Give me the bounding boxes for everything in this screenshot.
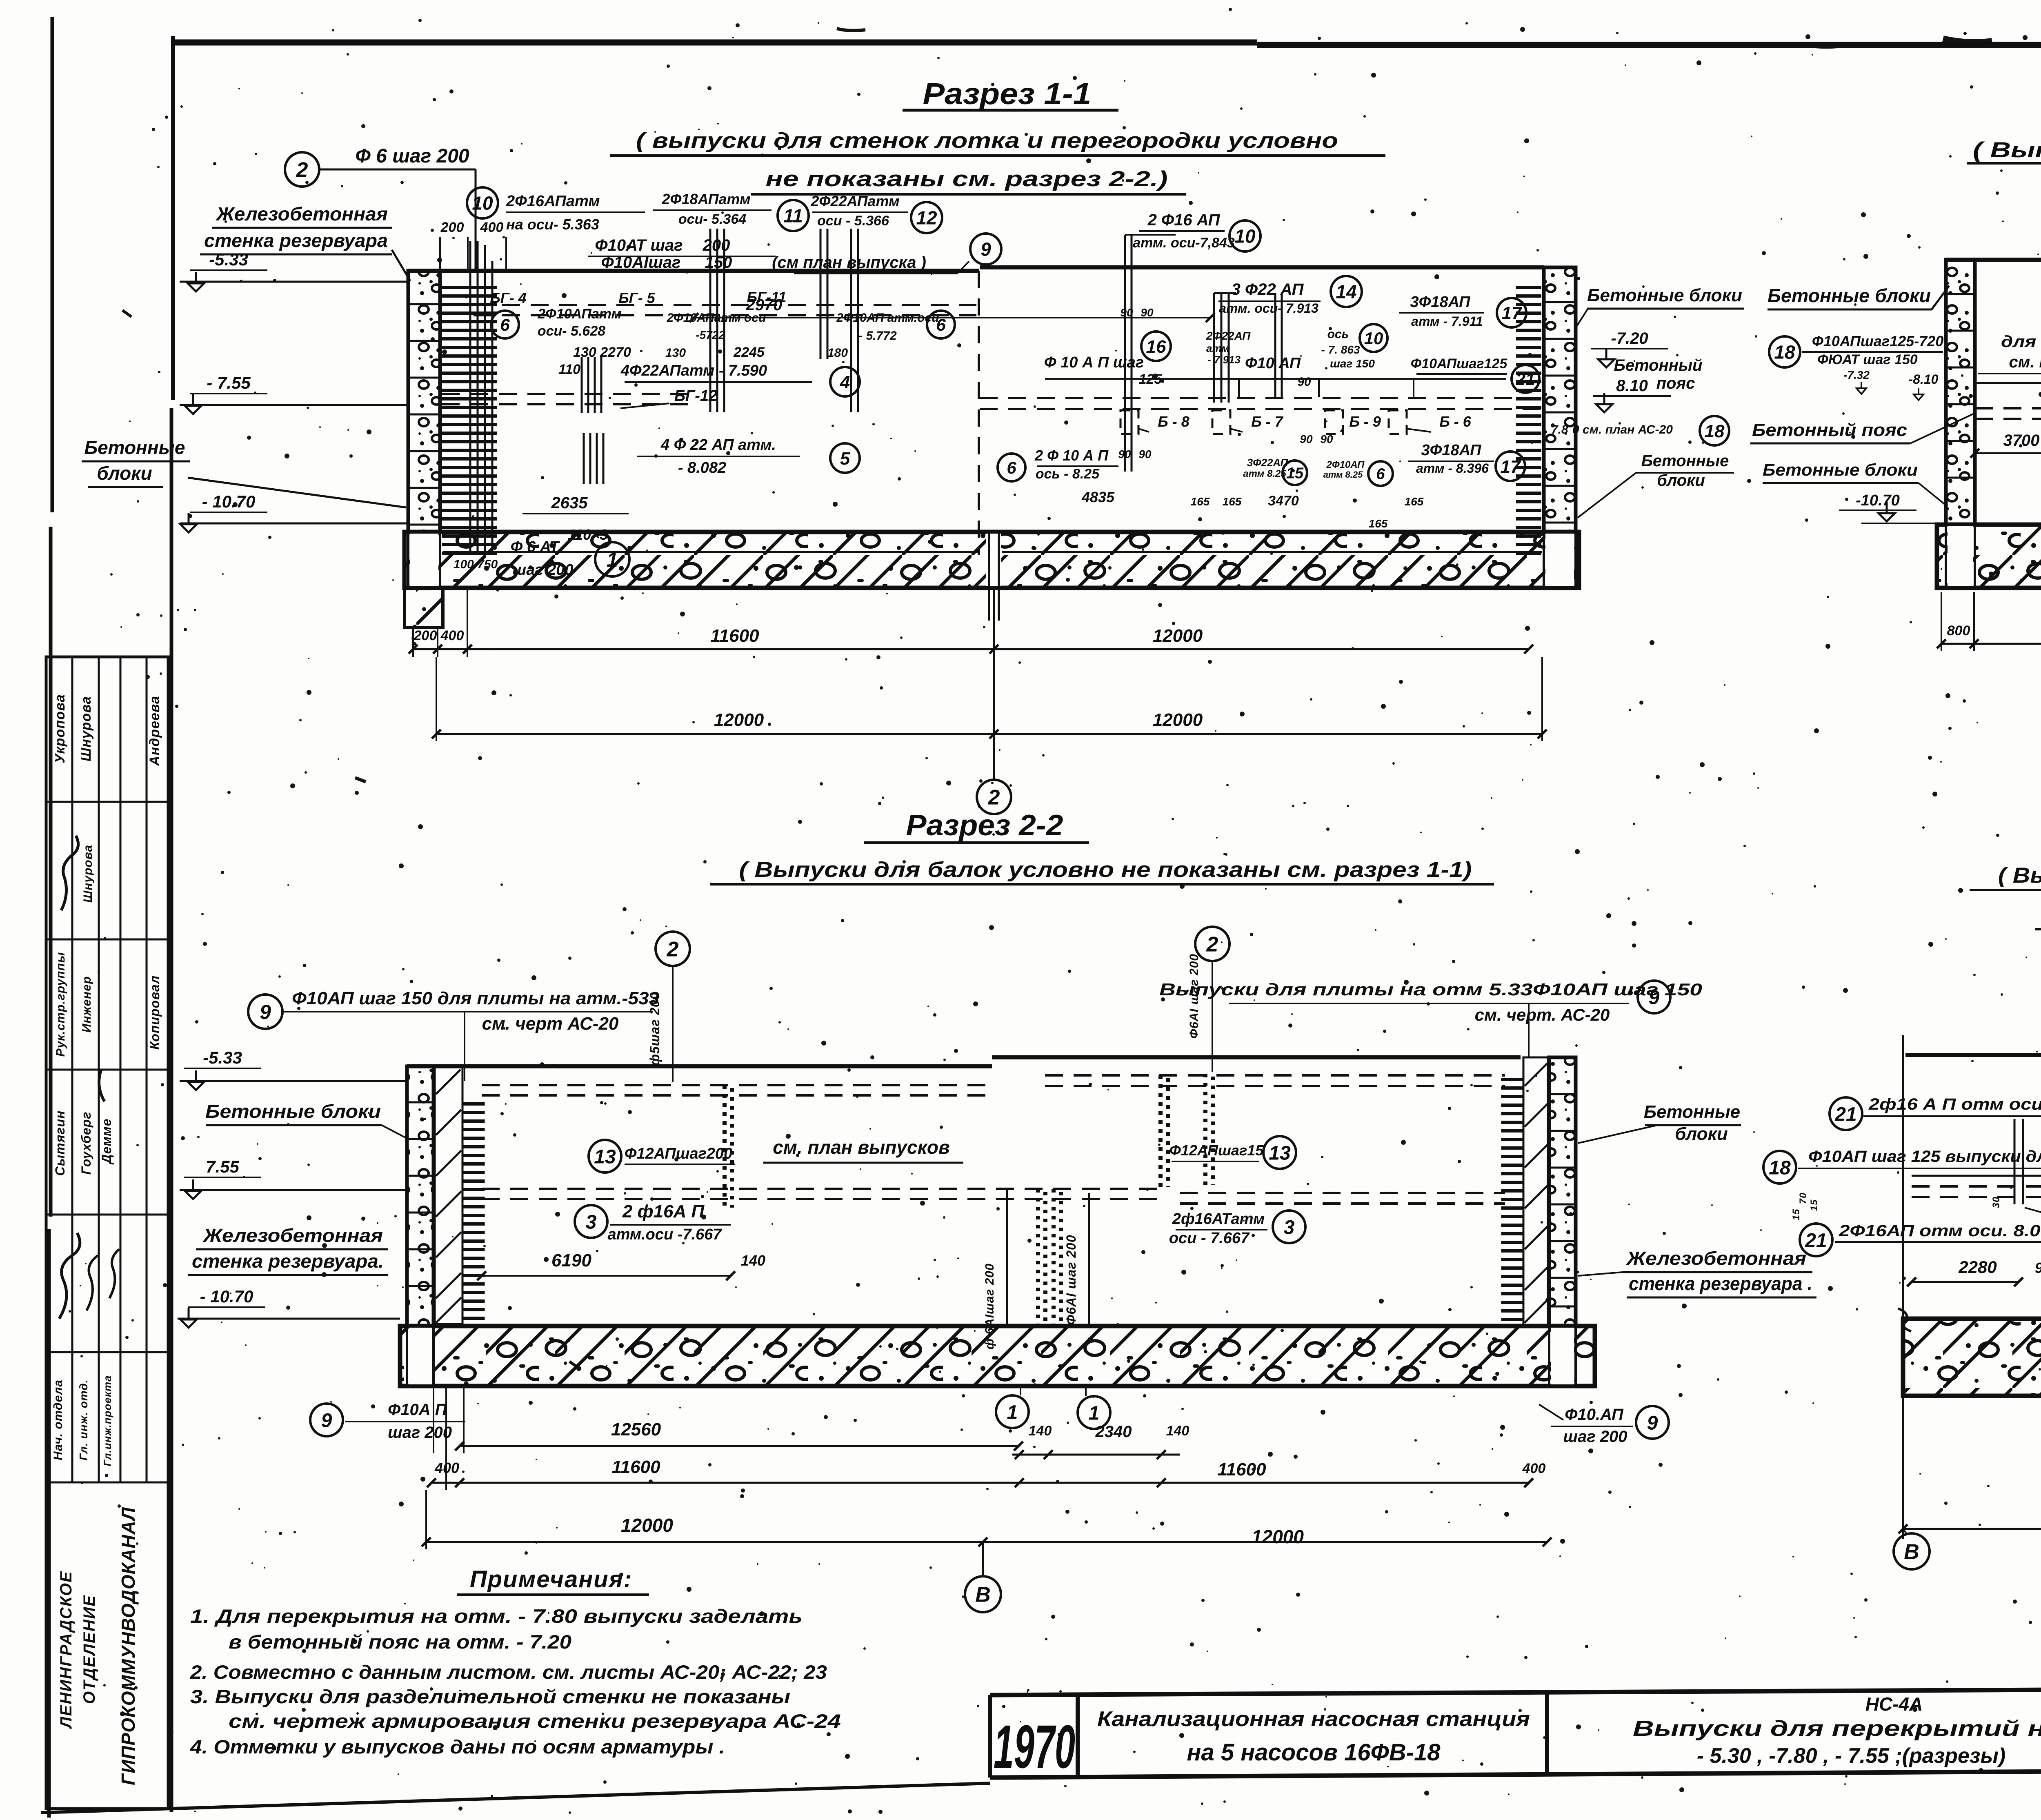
frame bottom border — [41, 1783, 990, 1813]
svg-text:-5.33: -5.33 — [209, 250, 248, 269]
cluster 4F22 mid — [581, 357, 583, 413]
svg-text:Ф10АП шаг 125 выпуски для п: Ф10АП шаг 125 выпуски для плиты на отм.-… — [1808, 1148, 2041, 1166]
svg-text:Ф10АПшаг125: Ф10АПшаг125 — [1411, 356, 1508, 372]
svg-text:18: 18 — [1705, 421, 1725, 441]
3 right — [1273, 1210, 1305, 1243]
center axis gap in band — [986, 534, 1001, 586]
beams dashed B8 B7 B9 B6 — [980, 397, 1543, 399]
svg-text:2280: 2280 — [1958, 1257, 1997, 1277]
svg-text:оси - 5.366: оси - 5.366 — [817, 213, 889, 229]
svg-text:2970: 2970 — [746, 296, 783, 314]
svg-text:Ф12АПшаг15: Ф12АПшаг15 — [1169, 1142, 1264, 1159]
svg-text:-7.32: -7.32 — [1843, 369, 1870, 381]
svg-text:БГ- 4: БГ- 4 — [490, 289, 527, 306]
svg-text:Ф10АПшаг125-720: Ф10АПшаг125-720 — [1812, 333, 1944, 349]
lower dashed slab — [482, 1188, 1158, 1190]
svg-text:Б - 9: Б - 9 — [1349, 413, 1381, 430]
svg-text:- 5.772: - 5.772 — [858, 329, 897, 343]
svg-text:6: 6 — [1376, 466, 1385, 483]
svg-text:-10.70: -10.70 — [1856, 492, 1900, 509]
svg-text:140: 140 — [1029, 1423, 1052, 1439]
structure 4-4 — [1902, 1035, 1904, 1539]
title block — [990, 1687, 2041, 1695]
svg-text:ГИПРОКОММУНВОДОКАНАЛ: ГИПРОКОММУНВОДОКАНАЛ — [118, 1507, 139, 1785]
svg-text:4835: 4835 — [1081, 489, 1115, 505]
svg-text:Укропова: Укропова — [52, 694, 68, 763]
svg-text:Шнурова: Шнурова — [81, 845, 95, 903]
svg-text:-7.20: -7.20 — [1611, 329, 1648, 347]
svg-text:Ф 10 А П шаг: Ф 10 А П шаг — [1044, 354, 1144, 371]
svg-text:Гл. инж. отд.: Гл. инж. отд. — [77, 1379, 90, 1460]
svg-text:2Ф16АПатм: 2Ф16АПатм — [506, 193, 600, 210]
svg-text:7.55: 7.55 — [206, 1157, 239, 1176]
svg-text:12000: 12000 — [1153, 626, 1203, 646]
svg-text:3: 3 — [586, 1211, 597, 1233]
svg-text:3. Выпуски для разделител: 3. Выпуски для разделительной стенки не … — [190, 1686, 790, 1707]
svg-text:7.8: 7.8 — [1551, 423, 1568, 436]
svg-text:18: 18 — [1774, 342, 1795, 363]
svg-text:6190: 6190 — [551, 1250, 591, 1270]
svg-text:2635: 2635 — [551, 494, 588, 512]
svg-text:130: 130 — [665, 346, 686, 360]
svg-text:150: 150 — [705, 254, 732, 271]
svg-text:5: 5 — [840, 449, 850, 469]
svg-text:6: 6 — [500, 315, 510, 334]
svg-text:9: 9 — [1647, 1412, 1658, 1434]
svg-text:3700: 3700 — [2003, 432, 2040, 449]
svg-text:12000: 12000 — [621, 1515, 673, 1536]
svg-text:-8.10: -8.10 — [1909, 372, 1939, 387]
svg-text:1: 1 — [1089, 1402, 1100, 1424]
svg-text:14: 14 — [1336, 281, 1356, 303]
frame left vertical — [171, 36, 175, 400]
axis circle 2 right chamber — [1195, 927, 1229, 961]
right wall 2-2 — [1501, 1078, 1524, 1323]
svg-text:1970: 1970 — [994, 1712, 1075, 1781]
svg-text:6: 6 — [1007, 458, 1016, 477]
svg-text:2: 2 — [988, 786, 1000, 810]
svg-text:ФЮАТ шаг 150: ФЮАТ шаг 150 — [1817, 352, 1918, 367]
svg-text:12000: 12000 — [714, 710, 764, 730]
svg-text:3Ф22АП: 3Ф22АП — [1247, 456, 1289, 469]
svg-text:10: 10 — [472, 193, 493, 214]
svg-text:165: 165 — [1223, 495, 1242, 508]
foundation band 1-1 — [405, 532, 1579, 588]
9 circle bottom — [310, 1404, 343, 1436]
svg-text:15: 15 — [1809, 1199, 1820, 1211]
svg-text:- 10.70: - 10.70 — [200, 1287, 253, 1306]
level -5.33 — [188, 272, 204, 291]
level -10.70 — [180, 513, 197, 532]
svg-text:Ф10АТ шаг: Ф10АТ шаг — [595, 236, 683, 254]
svg-text:Разрез 1-1: Разрез 1-1 — [923, 77, 1092, 111]
svg-text:2Ф16АП отм оси. 8.00: 2Ф16АП отм оси. 8.00 — [1839, 1222, 2041, 1240]
svg-text:блоки: блоки — [97, 463, 152, 484]
svg-text:21: 21 — [1834, 1104, 1856, 1125]
svg-text:Ф10А П: Ф10А П — [388, 1401, 447, 1419]
svg-text:Железобетонная: Железобетонная — [216, 203, 388, 225]
svg-text:2. Совместно с данным листо: 2. Совместно с данным листом. см. листы … — [190, 1661, 827, 1683]
svg-text:9: 9 — [1649, 987, 1660, 1008]
svg-text:4 Ф 22 АП атм.: 4 Ф 22 АП атм. — [660, 436, 776, 454]
svg-text:165: 165 — [1369, 517, 1388, 530]
svg-text:на оси- 5.363: на оси- 5.363 — [506, 216, 599, 233]
top slab 2-2 — [407, 1064, 992, 1068]
svg-text:15: 15 — [1286, 465, 1304, 482]
svg-text:Ф12АПшаг200: Ф12АПшаг200 — [625, 1145, 732, 1162]
svg-text:- 7. 863: - 7. 863 — [1321, 343, 1360, 356]
left wall 2-2 — [407, 1066, 434, 1326]
svg-text:Канализационная насосная с: Канализационная насосная станция — [1097, 1707, 1530, 1731]
svg-text:Бетонные блоки: Бетонные блоки — [1587, 285, 1742, 305]
svg-text:2: 2 — [1206, 933, 1218, 957]
svg-text:2ф16 А П отм оси-7.863: 2ф16 А П отм оси-7.863 — [1868, 1095, 2041, 1113]
svg-text:Железобетонная: Железобетонная — [202, 1225, 383, 1246]
svg-text:-5722: -5722 — [696, 329, 725, 341]
dashed vertical chamber edge — [978, 271, 980, 555]
svg-text:( Выпуски для балок Б-6 , Б: ( Выпуски для балок Б-6 , Б-9 условно не — [1973, 138, 2041, 162]
label 9 left — [248, 995, 282, 1029]
band 3-3 — [1937, 525, 2041, 588]
svg-text:НС-4А: НС-4А — [1865, 1693, 1923, 1715]
svg-text:Бетонный: Бетонный — [1614, 356, 1703, 374]
svg-text:Ф10АП шаг 150 для плиты на: Ф10АП шаг 150 для плиты на атм.-533 — [292, 988, 659, 1008]
right wall 1-1 — [1516, 286, 1541, 555]
svg-text:Бетонные: Бетонные — [1641, 452, 1729, 470]
svg-text:шаг 200: шаг 200 — [1563, 1428, 1627, 1446]
svg-text:Б - 7: Б - 7 — [1251, 413, 1283, 430]
lower annotations right chamber — [998, 454, 1025, 481]
svg-text:Ф10.АП: Ф10.АП — [1565, 1406, 1624, 1424]
svg-text:Ф 6 АТ: Ф 6 АТ — [511, 538, 560, 556]
levels left — [188, 1070, 204, 1090]
svg-text:В: В — [975, 1583, 991, 1607]
svg-text:шаг 200: шаг 200 — [388, 1424, 452, 1442]
svg-text:оси- 5.628: оси- 5.628 — [538, 323, 605, 339]
dimension rows 1-1 — [413, 648, 1529, 650]
svg-text:1. Для перекрытия на отм. -: 1. Для перекрытия на отм. - 7.80 выпуски… — [190, 1605, 803, 1627]
svg-text:90: 90 — [2035, 1259, 2041, 1276]
svg-text:2: 2 — [667, 938, 679, 961]
axis circle 2 — [656, 932, 690, 966]
dotted rebar columns — [723, 1085, 727, 1208]
svg-text:2: 2 — [296, 158, 308, 182]
svg-text:- 10.70: - 10.70 — [202, 492, 256, 511]
svg-text:3Ф18АП: 3Ф18АП — [1410, 294, 1471, 311]
svg-text:90: 90 — [1138, 448, 1152, 461]
svg-text:9: 9 — [980, 239, 991, 260]
svg-text:шаг 200: шаг 200 — [512, 561, 573, 578]
svg-text:- 8.082: - 8.082 — [678, 459, 726, 476]
svg-text:400: 400 — [434, 1460, 459, 1476]
svg-text:в бетонный пояс на отм. -: в бетонный пояс на отм. - 7.20 — [229, 1631, 571, 1653]
svg-text:2340: 2340 — [1095, 1423, 1132, 1441]
svg-text:2Ф10АПатм: 2Ф10АПатм — [537, 306, 621, 322]
svg-text:90: 90 — [1300, 433, 1313, 445]
svg-text:стенка резервуара: стенка резервуара — [204, 230, 388, 251]
svg-text:90: 90 — [1297, 375, 1311, 389]
svg-text:9: 9 — [321, 1410, 332, 1431]
svg-text:4: 4 — [840, 372, 850, 392]
wall through band — [410, 534, 438, 586]
svg-text:12000: 12000 — [1153, 710, 1203, 730]
labels 13 and 3 left chamber — [589, 1140, 621, 1173]
svg-text:Ф 6 шаг 200: Ф 6 шаг 200 — [355, 145, 469, 167]
svg-text:оси- 5.364: оси- 5.364 — [678, 211, 746, 227]
svg-text:11: 11 — [783, 205, 803, 227]
svg-text:10: 10 — [1234, 226, 1256, 247]
svg-text:30: 30 — [1991, 1197, 2002, 1208]
svg-text:12000: 12000 — [1252, 1526, 1304, 1547]
svg-text:21: 21 — [1805, 1230, 1827, 1251]
svg-text:-5.33: -5.33 — [203, 1048, 242, 1067]
svg-text:140: 140 — [741, 1252, 765, 1269]
svg-text:( Выпуски для балок Б6 и: ( Выпуски для балок Б6 и Б-8 условно — [1998, 863, 2041, 888]
beams B5 B2 — [2014, 1119, 2016, 1204]
svg-text:Шнурова: Шнурова — [78, 696, 94, 761]
svg-text:Сытягин: Сытягин — [53, 1110, 67, 1176]
svg-text:БГ- 5: БГ- 5 — [618, 289, 656, 306]
svg-text:- 7.55: - 7.55 — [207, 373, 251, 392]
axis circle 2 with F6 leader — [285, 152, 319, 187]
structure 3-3 — [1946, 258, 2041, 262]
svg-text:165: 165 — [1191, 495, 1210, 508]
signature table frame — [46, 657, 168, 1809]
rebar clusters hanging — [709, 229, 711, 412]
svg-text:13: 13 — [594, 1146, 616, 1168]
svg-text:90: 90 — [1118, 448, 1131, 461]
wall vertical rebars — [469, 241, 471, 555]
svg-text:110: 110 — [558, 362, 580, 377]
svg-text:Инженер: Инженер — [80, 976, 93, 1033]
svg-text:165: 165 — [1405, 495, 1424, 508]
svg-text:Выпуски для плиты на отм 5.33Ф: Выпуски для плиты на отм 5.33Ф10АП шаг 1… — [1159, 980, 1702, 999]
18 circle left — [1769, 336, 1800, 367]
svg-text:пояс: пояс — [1656, 374, 1695, 392]
svg-text:70: 70 — [1798, 1193, 1809, 1204]
svg-text:100 750: 100 750 — [454, 558, 498, 571]
svg-text:ф5шаг 200: ф5шаг 200 — [647, 992, 662, 1066]
svg-text:атм - 7.911: атм - 7.911 — [1411, 314, 1483, 329]
svg-text:Бетонные блоки: Бетонные блоки — [1768, 285, 1931, 306]
svg-text:2245: 2245 — [733, 345, 765, 360]
svg-text:1: 1 — [1007, 1402, 1018, 1423]
svg-text:Бетонные блоки: Бетонные блоки — [1763, 460, 1918, 479]
21/19/20/18 labels — [1830, 1097, 1862, 1130]
svg-text:для плиты на атм-7.83: для плиты на атм-7.83 — [2001, 333, 2041, 351]
svg-text:Копировал: Копировал — [147, 975, 162, 1050]
svg-text:16: 16 — [1146, 337, 1166, 357]
svg-text:Б - 8: Б - 8 — [1158, 413, 1189, 430]
svg-text:200: 200 — [440, 220, 464, 235]
svg-text:стенка резервуара .: стенка резервуара . — [1629, 1273, 1812, 1294]
svg-text:200: 200 — [703, 236, 730, 254]
svg-text:Ф6АI шаг 200: Ф6АI шаг 200 — [1064, 1235, 1078, 1325]
svg-text:см. план выпусков: см. план выпусков — [773, 1137, 950, 1158]
annotation cluster top (10,11,12) — [467, 187, 498, 218]
svg-text:Бетонный пояс: Бетонный пояс — [1752, 420, 1907, 440]
svg-text:Примечания:: Примечания: — [470, 1566, 632, 1593]
svg-text:Железобетонная: Железобетонная — [1626, 1248, 1806, 1269]
svg-text:атм. оси-7,843: атм. оси-7,843 — [1133, 235, 1235, 251]
center pit — [1006, 1189, 1008, 1326]
svg-text:атм: атм — [1206, 342, 1229, 354]
svg-text:см. черт АС-20: см. черт АС-20 — [482, 1014, 619, 1034]
svg-text:атм. оси- 7.913: атм. оси- 7.913 — [1219, 301, 1318, 316]
frame top border — [173, 40, 1257, 46]
svg-text:2Ф22АП: 2Ф22АП — [1206, 329, 1251, 342]
svg-text:ось: ось — [1327, 327, 1349, 341]
svg-text:Б - 6: Б - 6 — [1439, 413, 1471, 430]
top slab line and dashes — [408, 269, 979, 273]
svg-text:18: 18 — [1769, 1157, 1791, 1179]
scan streaks — [99, 16, 2041, 1367]
svg-text:3 Ф22 АП: 3 Ф22 АП — [1232, 280, 1304, 298]
svg-text:см. чертеж армирования: см. чертеж армирования стенки резервуара… — [229, 1710, 841, 1732]
svg-text:ОТДЕЛЕНИЕ: ОТДЕЛЕНИЕ — [80, 1595, 98, 1704]
svg-text:2Ф10АП: 2Ф10АП — [1326, 459, 1365, 470]
band 4-4 — [1903, 1319, 2041, 1396]
svg-text:800: 800 — [1947, 623, 1970, 639]
svg-text:ось - 8.25: ось - 8.25 — [1036, 466, 1100, 482]
svg-text:2 Ф 10 А П: 2 Ф 10 А П — [1034, 447, 1109, 464]
svg-text:Андреева: Андреева — [147, 696, 162, 766]
svg-text:атм - 8.396: атм - 8.396 — [1416, 461, 1489, 476]
svg-text:3Ф18АП: 3Ф18АП — [1421, 442, 1482, 459]
13 right — [1263, 1136, 1296, 1169]
band 2-2 — [400, 1326, 1595, 1386]
svg-text:Бетонные: Бетонные — [1644, 1102, 1740, 1122]
svg-text:2 ф16А П: 2 ф16А П — [622, 1201, 705, 1221]
svg-text:блоки: блоки — [1675, 1124, 1728, 1144]
rebar comb right of wall — [442, 286, 497, 555]
svg-text:БГ-12: БГ-12 — [674, 387, 717, 405]
svg-text:Нач. отдела: Нач. отдела — [51, 1379, 65, 1460]
svg-text:12: 12 — [916, 207, 937, 229]
slab lines 4-4 — [1912, 1175, 2041, 1177]
svg-text:Разрез 2-2: Разрез 2-2 — [906, 809, 1063, 842]
inner floor lines 1-1 — [443, 551, 978, 553]
21/19 lower — [1800, 1224, 1832, 1256]
svg-text:Рук.стр.группы: Рук.стр.группы — [54, 952, 67, 1057]
svg-text:4. Отметки у выпусков д: 4. Отметки у выпусков даны по осям армат… — [190, 1736, 725, 1758]
1 circles — [996, 1395, 1029, 1428]
svg-text:3: 3 — [1284, 1217, 1295, 1238]
svg-text:10: 10 — [1364, 329, 1383, 348]
svg-text:Бетонные блоки: Бетонные блоки — [205, 1101, 381, 1122]
svg-text:15: 15 — [1791, 1209, 1802, 1221]
svg-text:атм 8.25: атм 8.25 — [1243, 468, 1286, 479]
dashes 3-3 — [1975, 382, 2041, 384]
svg-text:3470: 3470 — [1268, 493, 1299, 509]
svg-text:на 5 насосов 16ФВ-18: на 5 насосов 16ФВ-18 — [1187, 1739, 1441, 1766]
svg-text:2 Ф16 АП: 2 Ф16 АП — [1147, 211, 1221, 229]
svg-text:2Ф22АПатм: 2Ф22АПатм — [810, 193, 899, 209]
dim 3-3 — [1941, 643, 2041, 645]
svg-text:шаг 150: шаг 150 — [1330, 357, 1375, 370]
level -7.55 — [185, 394, 201, 414]
svg-text:200: 200 — [414, 628, 437, 643]
svg-text:8.10: 8.10 — [1616, 377, 1648, 395]
svg-text:стенка резервуара.: стенка резервуара. — [192, 1250, 384, 1272]
svg-text:4Ф22АПатм - 7.590: 4Ф22АПатм - 7.590 — [620, 362, 767, 379]
svg-text:0 см. план АС-20: 0 см. план АС-20 — [1572, 423, 1673, 436]
svg-text:Ф10 АП: Ф10 АП — [1245, 355, 1301, 372]
svg-text:400: 400 — [440, 628, 464, 643]
verticals below band — [433, 1386, 434, 1453]
svg-text:Ф10АIшаг: Ф10АIшаг — [601, 254, 681, 271]
svg-text:13: 13 — [1269, 1142, 1291, 1164]
svg-text:180: 180 — [827, 346, 848, 360]
svg-text:( Выпуски для балок условно: ( Выпуски для балок условно не показаны … — [739, 858, 1472, 882]
left wall 1-1 — [408, 271, 440, 532]
svg-text:2ф16АТатм: 2ф16АТатм — [1172, 1210, 1265, 1228]
svg-text:11600: 11600 — [611, 1457, 660, 1477]
svg-text:- 7 913: - 7 913 — [1207, 354, 1241, 366]
svg-text:см. черт. АС-20: см. черт. АС-20 — [1475, 1005, 1610, 1024]
svg-text:ЛЕНИНГРАДСКОЕ: ЛЕНИНГРАДСКОЕ — [57, 1571, 75, 1729]
svg-text:400: 400 — [480, 220, 504, 235]
svg-text:атм.оси -7.667: атм.оси -7.667 — [608, 1226, 723, 1243]
svg-text:не показаны см. разрез 2-: не показаны см. разрез 2-2.) — [766, 167, 1168, 191]
svg-text:- 5.30 , -7.80 , - 7.55 ;(разр: - 5.30 , -7.80 , - 7.55 ;(разрезы) — [1697, 1744, 2005, 1768]
svg-text:Выпуски для перекрытий на: Выпуски для перекрытий на отм. — [1633, 1716, 2041, 1741]
svg-text:В: В — [1904, 1540, 1919, 1564]
svg-text:140: 140 — [1166, 1423, 1189, 1439]
sheet left margin line — [51, 17, 54, 512]
svg-text:см. план выпусков: см. план выпусков — [2009, 353, 2041, 371]
svg-text:1: 1 — [607, 548, 618, 571]
svg-text:400: 400 — [1522, 1461, 1546, 1476]
svg-text:оси - 7.667: оси - 7.667 — [1169, 1230, 1250, 1247]
svg-text:блоки: блоки — [1657, 472, 1705, 489]
right chamber annotations — [1229, 220, 1261, 251]
svg-text:Демме: Демме — [99, 1118, 114, 1165]
svg-text:2Ф18АПатм: 2Ф18АПатм — [661, 191, 750, 207]
svg-text:( выпуски для стенок лотка: ( выпуски для стенок лотка и перегородки… — [636, 129, 1338, 153]
svg-text:9: 9 — [260, 1001, 271, 1023]
svg-text:Бетонные: Бетонные — [84, 437, 185, 458]
svg-text:11600: 11600 — [1217, 1460, 1266, 1480]
svg-text:Гл.инж.проекта: Гл.инж.проекта — [101, 1375, 113, 1466]
svg-text:11600: 11600 — [710, 626, 759, 646]
svg-text:(см план выпуска ): (см план выпуска ) — [772, 254, 926, 271]
svg-text:Гоухберг: Гоухберг — [79, 1112, 93, 1175]
svg-text:атм 8.25: атм 8.25 — [1323, 469, 1363, 480]
svg-text:12560: 12560 — [611, 1420, 661, 1440]
